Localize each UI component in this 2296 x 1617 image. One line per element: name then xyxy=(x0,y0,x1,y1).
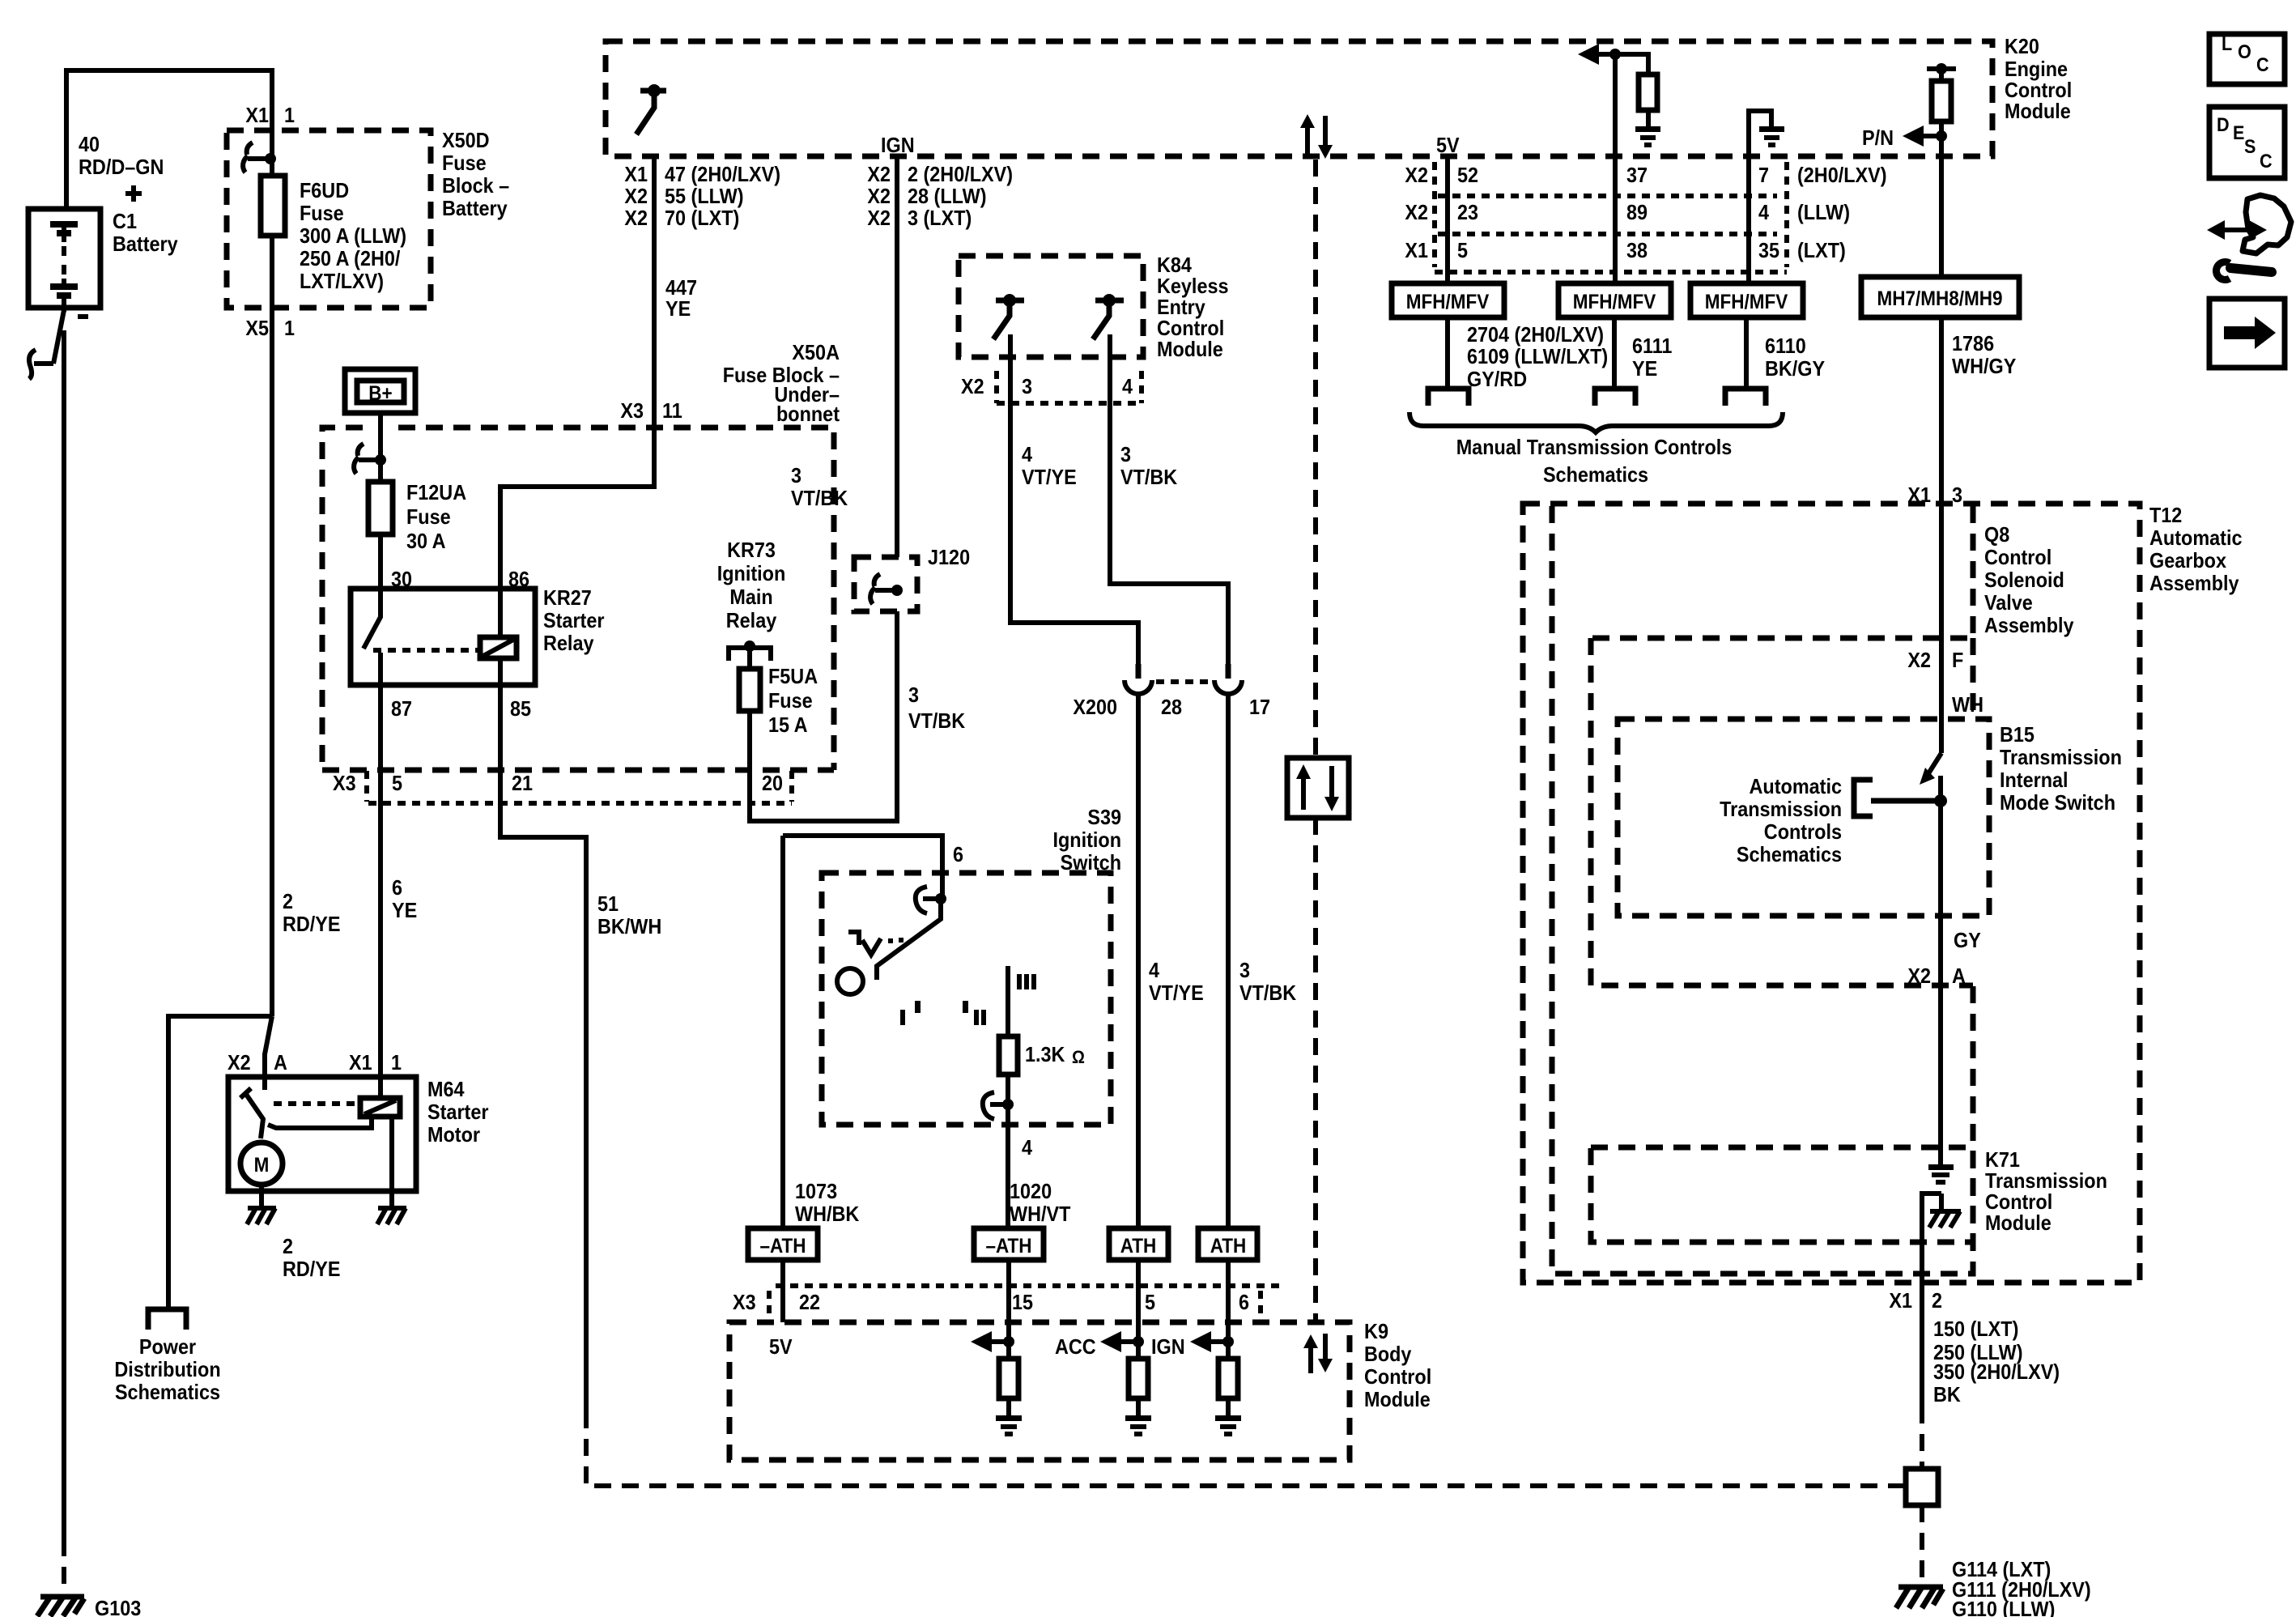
svg-text:X2: X2 xyxy=(867,206,891,230)
wire GY xyxy=(1938,916,1943,985)
ground (K9, 15) xyxy=(996,1415,1022,1436)
wire 1020 WH/VT to -ATH xyxy=(1006,1125,1010,1228)
svg-text:35: 35 xyxy=(1758,238,1779,262)
K84 switch 2 xyxy=(1093,300,1124,339)
svg-text:6: 6 xyxy=(953,842,963,866)
icon DESC box xyxy=(2209,107,2285,178)
svg-text:87: 87 xyxy=(391,696,412,721)
K9 bidirectional arrows xyxy=(1311,1334,1325,1373)
wire K84 pin 4 down xyxy=(1110,334,1228,667)
svg-text:Module: Module xyxy=(1157,337,1223,361)
svg-text:BK/GY: BK/GY xyxy=(1765,356,1825,381)
svg-text:51: 51 xyxy=(597,891,619,916)
fuse block X50A dashed box xyxy=(322,428,834,770)
svg-text:Power: Power xyxy=(139,1334,196,1359)
connector X3 dotted line xyxy=(368,801,792,806)
wire F5UA to pin 20 to J120 riser xyxy=(750,611,897,821)
svg-text:Main: Main xyxy=(729,585,772,609)
svg-text:–ATH: –ATH xyxy=(759,1235,806,1257)
svg-text:Schematics: Schematics xyxy=(1543,462,1648,487)
svg-text:T12: T12 xyxy=(2149,503,2182,527)
wire 28 down to ATH xyxy=(1136,694,1141,1228)
K9 input arrow (15) xyxy=(981,1339,1009,1344)
svg-text:X2: X2 xyxy=(624,206,648,230)
svg-text:VT/YE: VT/YE xyxy=(1149,981,1204,1005)
wire battery positive feed: C1 + to X50D X1-1 xyxy=(66,70,272,211)
svg-text:X50D: X50D xyxy=(442,128,490,152)
wire 6111 YE xyxy=(1612,317,1617,386)
S39 key circle xyxy=(837,968,863,994)
resistor 1.3K ohm xyxy=(999,1036,1018,1074)
S39 key symbol xyxy=(848,932,881,955)
svg-text:G103: G103 xyxy=(95,1596,141,1617)
svg-text:ATH: ATH xyxy=(1120,1235,1157,1257)
svg-text:ACC: ACC xyxy=(1055,1334,1096,1359)
battery negative switch blade xyxy=(34,310,64,364)
wire 6110 BK/GY xyxy=(1744,317,1749,386)
module K20 Engine Control Module dashed box xyxy=(606,41,1992,156)
wire F12UA to KR27 pin 30 xyxy=(378,534,383,589)
svg-text:Fuse: Fuse xyxy=(442,151,487,175)
wire 7 to MFH xyxy=(1746,156,1751,283)
svg-text:KR27: KR27 xyxy=(543,585,592,610)
svg-text:Motor: Motor xyxy=(427,1122,480,1147)
svg-text:Schematics: Schematics xyxy=(115,1380,220,1404)
svg-text:X2: X2 xyxy=(1907,648,1931,672)
svg-text:RD/D–GN: RD/D–GN xyxy=(79,155,164,179)
svg-text:VT/BK: VT/BK xyxy=(791,486,848,510)
svg-text:5: 5 xyxy=(1145,1290,1155,1314)
ECM P/N output tee xyxy=(1927,66,1956,71)
svg-text:52: 52 xyxy=(1457,163,1478,187)
svg-text:6111: 6111 xyxy=(1632,334,1672,358)
svg-text:40: 40 xyxy=(79,132,100,156)
svg-text:X2: X2 xyxy=(961,374,984,398)
svg-text:VT/BK: VT/BK xyxy=(1120,465,1177,489)
Q8 Control Solenoid Valve Assembly dashed box xyxy=(1591,506,1973,638)
svg-text:–ATH: –ATH xyxy=(985,1235,1031,1257)
svg-text:X50A: X50A xyxy=(792,340,840,364)
svg-text:O: O xyxy=(2238,41,2251,63)
T12 inner boundary dashed xyxy=(1552,506,1973,1274)
K9 pull-down resistor (6) xyxy=(1218,1359,1238,1398)
K9 input arrow (5) xyxy=(1111,1339,1138,1344)
wire dashed to ground xyxy=(1920,1505,1924,1581)
svg-text:2704 (2H0/LXV): 2704 (2H0/LXV) xyxy=(1467,322,1604,347)
svg-text:IGN: IGN xyxy=(881,133,915,157)
svg-text:F12UA: F12UA xyxy=(406,480,466,504)
svg-text:YE: YE xyxy=(1632,356,1657,381)
svg-text:X2: X2 xyxy=(867,162,891,186)
svg-text:Automatic: Automatic xyxy=(2149,526,2243,550)
wire coil to ground xyxy=(389,1117,394,1206)
svg-text:3: 3 xyxy=(908,683,919,707)
wire 447 YE from ECM to KR27 pin 86 xyxy=(500,156,654,589)
svg-text:X5: X5 xyxy=(245,316,269,340)
svg-text:WH/VT: WH/VT xyxy=(1010,1202,1071,1226)
wires ATH terminals into K9 xyxy=(780,1260,785,1322)
svg-text:C: C xyxy=(2260,151,2273,172)
wire 52 (5V ref) xyxy=(1445,156,1450,283)
battery plus sign xyxy=(125,185,142,202)
svg-text:X3: X3 xyxy=(333,771,356,795)
svg-text:Module: Module xyxy=(1364,1387,1431,1411)
relay KR27 coil xyxy=(480,637,517,658)
connector MFH/MFV box 1 xyxy=(1392,283,1504,317)
ECM sensor return arrow (wire 37) xyxy=(1585,54,1648,74)
B15 wiper junction xyxy=(1934,794,1947,807)
svg-text:B+: B+ xyxy=(368,382,392,405)
svg-text:Schematics: Schematics xyxy=(1737,842,1842,866)
svg-text:X2: X2 xyxy=(624,184,648,208)
svg-text:150 (LXT): 150 (LXT) xyxy=(1933,1317,2018,1341)
power distribution schematics terminal xyxy=(148,1309,186,1330)
fuse block X50D dashed box xyxy=(227,130,431,308)
svg-text:Starter: Starter xyxy=(543,608,605,632)
svg-text:Ignition: Ignition xyxy=(1053,828,1122,852)
svg-text:A: A xyxy=(274,1050,287,1074)
K9 pull-down resistor (5) xyxy=(1129,1359,1148,1398)
battery minus sign xyxy=(78,314,88,319)
relay KR27 switch xyxy=(364,589,381,685)
ground (ECM internal, wire 7) xyxy=(1759,126,1784,147)
wire K84 pin 3 down xyxy=(1010,334,1138,667)
svg-text:15 A: 15 A xyxy=(768,713,808,737)
svg-text:X1: X1 xyxy=(1889,1288,1912,1313)
terminal staple wire 2704 xyxy=(1428,389,1469,406)
svg-text:3: 3 xyxy=(1120,442,1131,466)
svg-text:Transmission: Transmission xyxy=(2000,745,2122,769)
svg-text:4: 4 xyxy=(1149,958,1159,982)
wire branch to power distribution xyxy=(168,1016,272,1307)
svg-text:Q8: Q8 xyxy=(1984,522,2009,547)
svg-text:K9: K9 xyxy=(1364,1319,1388,1343)
svg-text:(LLW): (LLW) xyxy=(1797,200,1850,224)
svg-text:Fuse: Fuse xyxy=(406,504,451,529)
svg-text:Ω: Ω xyxy=(1072,1047,1085,1067)
svg-text:22: 22 xyxy=(799,1290,820,1314)
svg-text:6110: 6110 xyxy=(1765,334,1806,358)
svg-text:X1: X1 xyxy=(245,103,269,127)
svg-text:MFH/MFV: MFH/MFV xyxy=(1406,291,1490,313)
svg-text:1073: 1073 xyxy=(795,1179,837,1203)
connector X200 right half xyxy=(1214,680,1242,694)
wire B+ down into X50A xyxy=(378,413,383,482)
module K9 Body Control Module dashed box xyxy=(729,1322,1350,1460)
M64 internal link coil to motor node xyxy=(268,1117,372,1128)
wire dashed to splice xyxy=(1920,1406,1924,1469)
ECM ground hook (wire 7) xyxy=(1749,111,1771,156)
svg-text:1: 1 xyxy=(284,103,295,127)
svg-text:J120: J120 xyxy=(928,545,970,569)
svg-text:E: E xyxy=(2233,122,2244,144)
K84 switch 1 xyxy=(993,300,1024,339)
svg-text:Valve: Valve xyxy=(1984,590,2033,615)
svg-text:Module: Module xyxy=(1985,1211,2052,1235)
svg-text:4: 4 xyxy=(1758,200,1769,224)
bracket to automatic transmission controls schematics xyxy=(1854,780,1873,816)
wire 37 to MFH xyxy=(1613,156,1618,283)
svg-text:6: 6 xyxy=(1239,1290,1249,1314)
svg-text:28: 28 xyxy=(1161,695,1182,719)
M64 switch blade xyxy=(240,1077,265,1138)
module K84 Keyless Entry Control Module dashed box xyxy=(959,256,1143,357)
svg-text:Control: Control xyxy=(1364,1364,1431,1389)
fuse F6UD xyxy=(261,176,285,236)
svg-text:MFH/MFV: MFH/MFV xyxy=(1573,291,1656,313)
svg-text:2: 2 xyxy=(283,1234,293,1258)
ground (K9, 6) xyxy=(1215,1415,1241,1436)
svg-text:21: 21 xyxy=(512,771,533,795)
ground (ECM internal, wire 37) xyxy=(1635,126,1660,147)
connector J120 dashed box xyxy=(854,557,917,611)
svg-text:S: S xyxy=(2244,136,2256,158)
P/N arrow xyxy=(1912,134,1941,138)
svg-text:Module: Module xyxy=(2005,99,2071,123)
svg-text:1: 1 xyxy=(391,1050,402,1074)
svg-text:5V: 5V xyxy=(1436,133,1460,157)
svg-text:7: 7 xyxy=(1758,163,1769,187)
svg-text:RD/YE: RD/YE xyxy=(283,912,341,936)
terminal ATH (5) xyxy=(1109,1228,1168,1260)
svg-text:3 (LXT): 3 (LXT) xyxy=(908,206,972,230)
relay KR27 link dashed xyxy=(373,648,480,653)
svg-text:6109 (LLW/LXT): 6109 (LLW/LXT) xyxy=(1467,344,1608,368)
svg-text:Fuse: Fuse xyxy=(768,688,813,713)
svg-text:X3: X3 xyxy=(620,398,644,423)
S39 top contact xyxy=(923,896,941,901)
svg-text:2: 2 xyxy=(283,889,293,913)
wire P/N through Q8 xyxy=(1939,501,1944,638)
K9 input arrow (6) xyxy=(1201,1339,1228,1344)
svg-text:Gearbox: Gearbox xyxy=(2149,548,2226,572)
svg-text:Mode Switch: Mode Switch xyxy=(2000,790,2115,815)
pin group row dividers xyxy=(1438,194,1777,198)
battery C1 box xyxy=(28,209,100,308)
svg-text:4: 4 xyxy=(1122,374,1133,398)
svg-text:Assembly: Assembly xyxy=(2149,571,2239,595)
svg-text:4: 4 xyxy=(1022,442,1032,466)
fuse F12UA xyxy=(368,482,393,534)
svg-text:3: 3 xyxy=(791,463,801,487)
ECM bidirectional arrows xyxy=(1307,116,1325,159)
svg-text:85: 85 xyxy=(510,696,531,721)
svg-text:BK/WH: BK/WH xyxy=(597,914,661,938)
svg-text:350 (2H0/LXV): 350 (2H0/LXV) xyxy=(1933,1360,2060,1384)
wire KR27 85 to X3-21 xyxy=(500,685,586,1411)
wire 37 stub xyxy=(1613,54,1618,156)
svg-text:Distribution: Distribution xyxy=(114,1357,220,1381)
fuse F5UA xyxy=(739,669,760,711)
ground M64 solenoid chassis xyxy=(377,1208,406,1224)
wire WH xyxy=(1939,638,1944,753)
svg-text:F5UA: F5UA xyxy=(768,664,818,688)
svg-text:Ignition: Ignition xyxy=(717,561,786,585)
terminal staple wire 6111 xyxy=(1595,389,1635,406)
svg-text:GY/RD: GY/RD xyxy=(1467,367,1527,391)
svg-text:Starter: Starter xyxy=(427,1100,489,1124)
svg-text:X1: X1 xyxy=(349,1050,372,1074)
svg-text:G110 (LLW): G110 (LLW) xyxy=(1952,1597,2055,1617)
ECM internal switch (crank request) xyxy=(636,91,666,134)
svg-text:X2: X2 xyxy=(1405,200,1428,224)
terminal ATH (6) xyxy=(1198,1228,1257,1260)
svg-text:3: 3 xyxy=(1952,483,1962,507)
svg-text:X200: X200 xyxy=(1073,695,1117,719)
S39 rotor blade xyxy=(877,899,941,980)
svg-text:F: F xyxy=(1952,648,1963,672)
svg-text:Solenoid: Solenoid xyxy=(1984,568,2064,592)
ground G114/G111/G110 chassis xyxy=(1896,1587,1943,1608)
svg-text:WH/GY: WH/GY xyxy=(1952,354,2016,378)
svg-text:X2: X2 xyxy=(1405,163,1428,187)
svg-text:2 (2H0/LXV): 2 (2H0/LXV) xyxy=(908,162,1013,186)
svg-text:4: 4 xyxy=(1022,1135,1032,1160)
svg-text:MH7/MH8/MH9: MH7/MH8/MH9 xyxy=(1877,287,2003,310)
svg-text:X1: X1 xyxy=(624,162,648,186)
svg-text:Transmission: Transmission xyxy=(1720,797,1842,821)
svg-text:GY: GY xyxy=(1954,928,1981,952)
M64 link dashed xyxy=(274,1101,360,1106)
svg-text:20: 20 xyxy=(762,771,783,795)
module K71 Transmission Control Module dashed box xyxy=(1591,1147,1973,1242)
svg-text:2: 2 xyxy=(1932,1288,1942,1313)
svg-text:(LXT): (LXT) xyxy=(1797,238,1846,262)
brace manual transmission controls xyxy=(1409,412,1783,432)
svg-text:D: D xyxy=(2217,114,2230,136)
svg-text:1786: 1786 xyxy=(1952,331,1994,355)
wire 1786 WH/GY xyxy=(1939,317,1944,501)
wire F6UD to X5 pin 1 down to M64 xyxy=(270,236,274,1016)
svg-text:Assembly: Assembly xyxy=(1984,613,2074,637)
svg-text:47 (2H0/LXV): 47 (2H0/LXV) xyxy=(665,162,780,186)
K71 output wire with case ground tap xyxy=(1922,1194,1941,1406)
svg-text:Relay: Relay xyxy=(726,608,777,632)
terminal staple wire 6110 xyxy=(1725,389,1766,406)
svg-text:1020: 1020 xyxy=(1010,1179,1052,1203)
svg-text:38: 38 xyxy=(1626,238,1648,262)
S39 III wire with resistor xyxy=(1006,966,1010,1036)
svg-text:L: L xyxy=(2222,33,2232,55)
icon hand with wrench xyxy=(2215,228,2259,232)
K9 pull-down resistor (15) xyxy=(999,1359,1018,1398)
svg-text:F6UD: F6UD xyxy=(300,178,349,202)
B+ terminal box xyxy=(345,369,415,413)
svg-text:YE: YE xyxy=(665,296,691,321)
svg-text:IGN: IGN xyxy=(1151,1334,1185,1359)
svg-text:55 (LLW): 55 (LLW) xyxy=(665,184,744,208)
splice block xyxy=(1906,1469,1938,1505)
wire KR27 87 to X3-5 to M64 coil (6 YE) xyxy=(378,685,383,1098)
relay KR73 coil terminal xyxy=(729,648,771,661)
wire battery negative down to G103 xyxy=(62,330,66,1539)
resistor (ECM pull-down on 37) xyxy=(1639,74,1657,110)
connector MFH/MFV box 2 xyxy=(1558,283,1671,317)
terminal -ATH (22) xyxy=(748,1228,818,1260)
svg-text:KR73: KR73 xyxy=(727,538,776,562)
connector symbol inside X50D xyxy=(243,143,270,172)
wire S39 pin 6 feed xyxy=(783,836,942,899)
svg-text:37: 37 xyxy=(1626,163,1648,187)
svg-text:VT/BK: VT/BK xyxy=(908,709,965,733)
svg-text:28 (LLW): 28 (LLW) xyxy=(908,184,987,208)
svg-text:15: 15 xyxy=(1012,1290,1033,1314)
icon next-page arrow box xyxy=(2209,299,2285,368)
svg-text:Block –: Block – xyxy=(442,173,509,198)
relay KR27 Starter Relay box xyxy=(351,589,535,685)
svg-text:BK: BK xyxy=(1933,1382,1961,1406)
wire 17 down to ATH xyxy=(1226,694,1231,1228)
svg-text:B15: B15 xyxy=(2000,722,2035,747)
svg-text:LXT/LXV): LXT/LXV) xyxy=(300,269,384,293)
svg-text:5: 5 xyxy=(1457,238,1468,262)
svg-text:Control: Control xyxy=(1984,545,2052,569)
gearbox internal harness dashed box xyxy=(1591,638,1973,985)
switch B15 Transmission Internal Mode Switch dashed box xyxy=(1618,719,1989,916)
S39 position marks I II III xyxy=(900,1010,905,1025)
svg-text:YE: YE xyxy=(392,898,417,922)
svg-text:VT/BK: VT/BK xyxy=(1239,981,1296,1005)
connector MFH/MFV box 3 xyxy=(1690,283,1803,317)
connector J120 symbol xyxy=(870,574,897,604)
svg-text:89: 89 xyxy=(1626,200,1648,224)
svg-text:5: 5 xyxy=(392,771,402,795)
connector MH7/MH8/MH9 box xyxy=(1861,277,2019,317)
svg-text:RD/YE: RD/YE xyxy=(283,1257,341,1281)
svg-text:23: 23 xyxy=(1457,200,1478,224)
svg-text:P/N: P/N xyxy=(1862,126,1894,150)
B15 mode switch blade xyxy=(1926,753,1941,777)
switch S39 Ignition Switch dashed box xyxy=(822,873,1111,1125)
bidirectional link box xyxy=(1287,758,1349,818)
svg-text:70 (LXT): 70 (LXT) xyxy=(665,206,739,230)
svg-text:C1: C1 xyxy=(113,209,137,233)
wire motor to ground xyxy=(259,1185,264,1206)
svg-text:Fuse: Fuse xyxy=(300,201,344,225)
motor M circle xyxy=(240,1143,283,1185)
svg-text:X2: X2 xyxy=(1907,964,1931,988)
svg-text:K20: K20 xyxy=(2005,34,2039,58)
svg-text:3: 3 xyxy=(1022,374,1032,398)
svg-text:300 A (LLW): 300 A (LLW) xyxy=(300,223,406,248)
wire X1-1 6YE into coil xyxy=(378,1054,383,1098)
svg-text:Relay: Relay xyxy=(543,631,594,655)
svg-text:6: 6 xyxy=(392,875,402,900)
M64 starter motor box xyxy=(228,1077,416,1191)
svg-text:Internal: Internal xyxy=(2000,768,2069,792)
svg-text:1.3K: 1.3K xyxy=(1025,1042,1065,1066)
svg-text:250 A (2H0/: 250 A (2H0/ xyxy=(300,246,400,270)
M64 solenoid coil xyxy=(360,1098,400,1117)
S39 bottom contact xyxy=(990,1102,1008,1107)
ground M64 motor chassis xyxy=(247,1208,276,1224)
svg-text:WH: WH xyxy=(1952,692,1983,717)
ground K71 case chassis xyxy=(1929,1211,1961,1228)
svg-text:X2: X2 xyxy=(867,184,891,208)
wire 2704/6109 GY/RD xyxy=(1445,317,1450,386)
connector symbol at B+ entry xyxy=(354,444,381,474)
svg-text:Battery: Battery xyxy=(442,196,508,220)
svg-text:A: A xyxy=(1952,964,1966,988)
ground G103 chassis xyxy=(37,1597,84,1616)
svg-text:bonnet: bonnet xyxy=(776,402,840,426)
serial data bus dashed line ECM to K9 xyxy=(1313,160,1318,758)
svg-text:VT/YE: VT/YE xyxy=(1022,465,1077,489)
svg-text:M: M xyxy=(254,1154,270,1177)
svg-text:X2: X2 xyxy=(227,1050,251,1074)
ground (K9, 5) xyxy=(1125,1415,1151,1436)
icon LOC box xyxy=(2209,34,2285,84)
